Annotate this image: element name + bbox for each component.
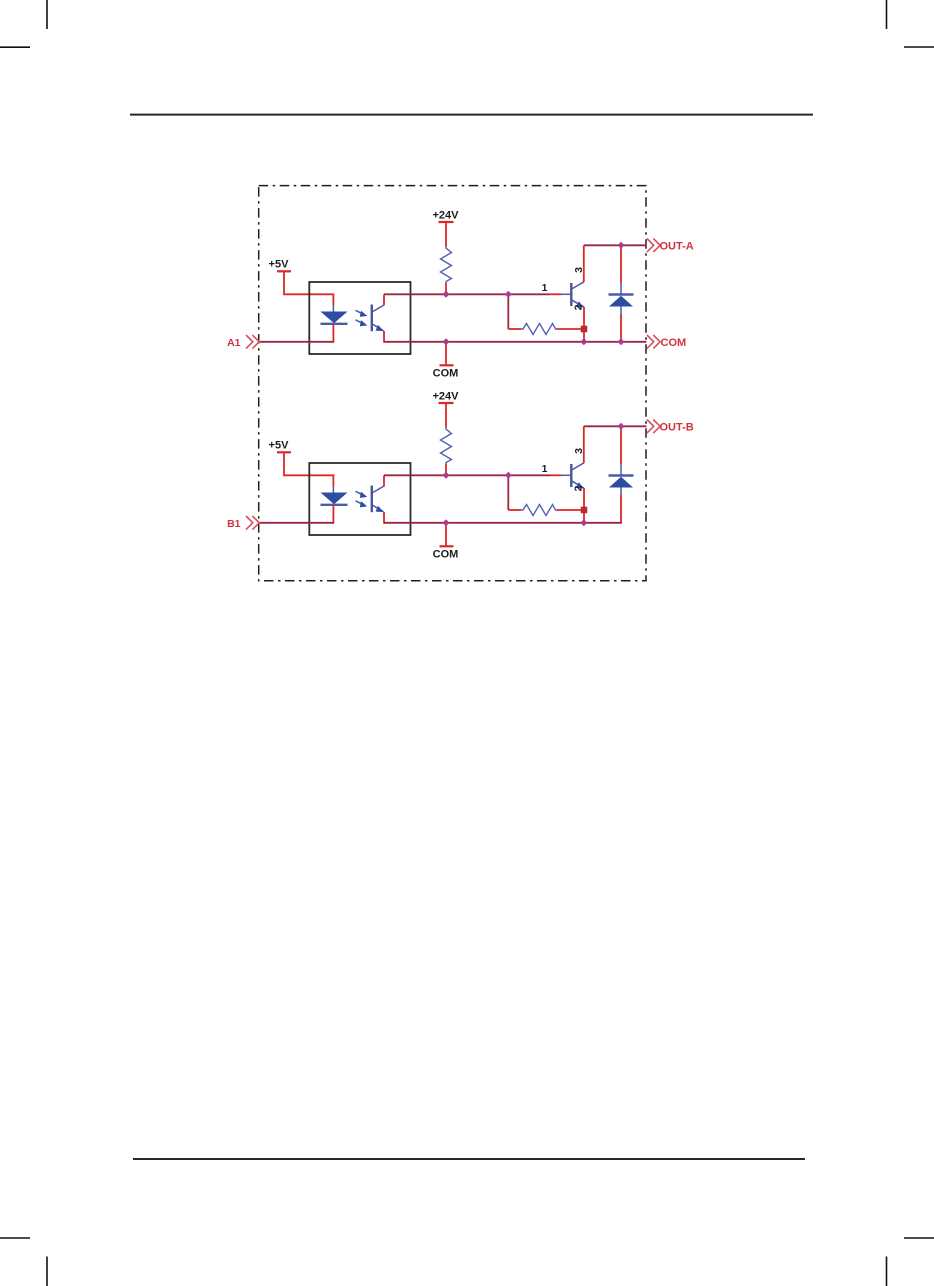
svg-text:1: 1 bbox=[542, 463, 548, 475]
svg-text:+24V: +24V bbox=[433, 210, 460, 222]
svg-text:COM: COM bbox=[661, 337, 687, 349]
svg-text:+24V: +24V bbox=[433, 391, 460, 403]
svg-text:B1: B1 bbox=[227, 518, 241, 530]
svg-text:2: 2 bbox=[572, 485, 584, 491]
svg-text:1: 1 bbox=[542, 282, 548, 294]
svg-text:OUT-A: OUT-A bbox=[660, 241, 694, 253]
svg-text:+5V: +5V bbox=[269, 440, 290, 452]
svg-text:2: 2 bbox=[572, 304, 584, 310]
svg-text:COM: COM bbox=[433, 368, 459, 380]
svg-text:+5V: +5V bbox=[269, 259, 290, 271]
svg-text:A1: A1 bbox=[227, 337, 241, 349]
svg-text:COM: COM bbox=[433, 549, 459, 561]
svg-text:OUT-B: OUT-B bbox=[660, 422, 694, 434]
